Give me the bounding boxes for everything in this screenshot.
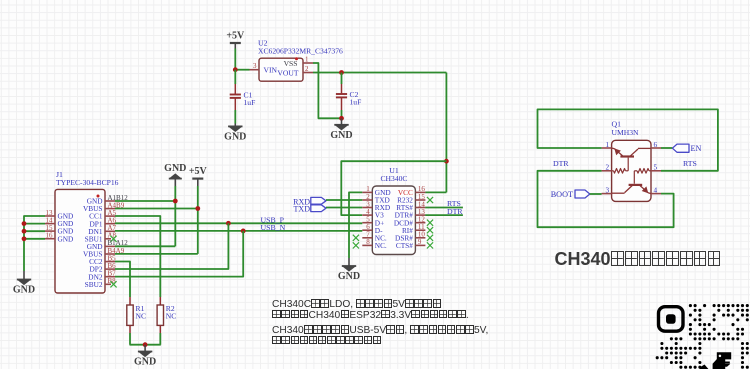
U1 pin 2 TXD (362, 193, 390, 205)
svg-text:TYPEC-304-BCP16: TYPEC-304-BCP16 (56, 178, 119, 187)
U2 pin 1 VSS stub (303, 55, 313, 63)
U1 pin 13 DTR# (395, 208, 426, 220)
wire DTR loop (pin2-pin4) (538, 171, 674, 227)
U1 pin 8 NC. (353, 238, 387, 250)
svg-text:CTS#: CTS# (396, 241, 413, 250)
Q1 pin 1 (602, 141, 612, 149)
net label RTS at U1 (425, 199, 463, 208)
U1 pin 3 RXD (362, 200, 390, 212)
resistor R1 NC (127, 297, 146, 345)
wire +5V to B4A9 (115, 253, 198, 255)
U1 pin 1 GND (362, 185, 390, 197)
QR code (653, 302, 750, 369)
svg-text:RTS: RTS (683, 159, 697, 168)
J1 pin A7 DN1 (88, 224, 116, 236)
svg-text:UMH3N: UMH3N (612, 128, 640, 137)
note text block 2 (272, 325, 488, 346)
svg-text:BOOT: BOOT (551, 190, 573, 199)
port RXD (293, 197, 326, 206)
J1 pin B6 DP2 (90, 262, 117, 274)
U1 pin 5 D+ (362, 216, 384, 228)
wire USB_P (115, 222, 362, 224)
svg-text:GND: GND (164, 163, 186, 174)
wire BOOT to pin 3 (590, 193, 602, 195)
Q1 transistor A (top) (612, 148, 651, 157)
U1 pin 9 CTS# (396, 238, 433, 250)
U1 pin 12 DCD# (394, 216, 433, 228)
svg-text:GND: GND (224, 132, 246, 143)
Q1 base resistor B (634, 169, 651, 184)
svg-text:6: 6 (654, 141, 658, 149)
Q1 pin 6 (651, 141, 661, 149)
wire CC2 to R1 (115, 262, 130, 298)
wire 3V3 to V3 pin (341, 161, 446, 215)
wire GND flag to B1A12 (115, 245, 175, 247)
svg-text:GND: GND (13, 285, 35, 296)
U1 pin 14 RTS# (396, 200, 425, 212)
wire DP2 riser (115, 223, 228, 269)
transistor array Q1 UMH3N body (612, 120, 652, 202)
svg-text:16: 16 (46, 232, 54, 240)
svg-text:DTR: DTR (447, 207, 463, 216)
U1 pin 7 NC. (353, 231, 387, 243)
svg-text:NC.: NC. (375, 241, 387, 250)
J1 pin A4B9 VBUS (83, 201, 125, 213)
svg-text:8: 8 (366, 238, 370, 246)
power +5V (LDO input) (226, 31, 245, 70)
junction node USB_P (226, 221, 231, 226)
svg-text:4: 4 (654, 186, 658, 194)
wire U1 GND pin to ground (349, 192, 362, 258)
Q1 pin 2 (602, 164, 612, 172)
schematic title CH340 auto flow-control download circuit (555, 249, 721, 270)
capacitor C2 1uF (336, 73, 361, 119)
svg-text:VIN: VIN (264, 66, 278, 75)
note text block 1 (272, 299, 469, 320)
svg-text:1: 1 (305, 55, 309, 63)
svg-text:VSS: VSS (284, 59, 298, 68)
wire DN2 riser (115, 231, 243, 277)
svg-text:+5V: +5V (189, 166, 208, 177)
power GND flag above J1 (164, 163, 186, 246)
J1 pin B5 CC2 (89, 254, 116, 266)
resistor R2 NC (157, 297, 176, 345)
J1 pin A5 CC1 (89, 209, 116, 221)
QR modules (656, 304, 749, 369)
junction node 3V3 branch (444, 159, 449, 164)
junction nodes J1 shield (22, 221, 27, 241)
net label USB_P (261, 215, 285, 224)
U1 pin 11 RI# (402, 223, 433, 235)
junction node +5V/C1 (233, 67, 238, 72)
svg-text:3: 3 (253, 62, 257, 70)
ground below U1 (338, 258, 360, 282)
ground below C2 (330, 118, 352, 141)
svg-text:GND: GND (338, 271, 360, 282)
J1 pin A1B12 GND (87, 194, 129, 206)
connector J1 TYPEC-304-BCP16 body (55, 170, 119, 293)
power +5V above J1 (189, 166, 208, 254)
ground below R1 R2 (134, 345, 156, 368)
port TXD (294, 205, 326, 214)
Q1 transistor B (bottom) (612, 185, 651, 194)
svg-text:2: 2 (305, 65, 309, 73)
svg-text:GND: GND (134, 357, 156, 368)
svg-text:VOUT: VOUT (277, 69, 298, 78)
Q1 pin 4 (651, 186, 661, 194)
svg-text:TXD: TXD (294, 205, 311, 214)
Q1 pin 3 (602, 186, 612, 194)
wire USB_N (115, 230, 362, 232)
svg-text:USB_N: USB_N (261, 223, 286, 232)
net label USB_N (261, 223, 286, 232)
port EN (672, 144, 701, 153)
wire CC1 to R2 (115, 216, 160, 297)
svg-text:1uF: 1uF (244, 98, 256, 107)
J1 pin 15 GND (45, 224, 73, 236)
junction node VOUT/C2 (339, 70, 344, 75)
J1 pin A6 DP1 (90, 217, 117, 229)
U2 pin 2 VOUT stub (303, 65, 313, 73)
svg-text:1: 1 (606, 141, 610, 149)
wire RTS loop (pin1-pin5) (538, 109, 718, 170)
ground left of J1 (13, 271, 35, 296)
wire 3V3 vertical to U1 (445, 73, 447, 193)
wire TXD port to U1 RXD (326, 207, 362, 209)
svg-text:1uF: 1uF (350, 97, 362, 106)
wire J1 shield to ground (24, 216, 45, 271)
wire EN (661, 147, 672, 149)
wire VSS to ground rail (313, 63, 342, 118)
regulator U2 XC6206P332MR (258, 39, 343, 82)
wire +5V to A4B9 (115, 208, 198, 210)
wire GND flag to A1B12 (115, 200, 175, 202)
junction node C2/GND (339, 116, 344, 121)
wire +5V to U2 VIN (235, 69, 249, 71)
wire RXD port to U1 TXD (326, 199, 362, 201)
J1 pin B7 DN2 (88, 270, 116, 282)
svg-text:5: 5 (654, 164, 658, 172)
U1 pin 10 DSR# (395, 231, 433, 243)
svg-text:GND: GND (330, 130, 352, 141)
svg-text:SBU2: SBU2 (85, 280, 103, 289)
port BOOT (551, 190, 590, 199)
svg-text:DTR: DTR (553, 159, 569, 168)
junction node USB_N (241, 229, 246, 234)
svg-text:NC: NC (136, 312, 147, 321)
J1 pin 14 GND (45, 216, 73, 228)
J1 pin B1A12 GND (87, 239, 129, 251)
junction node GND/A1B12 (173, 199, 178, 204)
ground below C1 (224, 124, 246, 143)
wire R1-R2 ground link (130, 344, 161, 346)
svg-text:3: 3 (606, 186, 610, 194)
Q1 base resistor A (612, 158, 629, 174)
junction node +5V/A4B9 (195, 206, 200, 211)
svg-text:+5V: +5V (226, 31, 245, 42)
capacitor C1 1uF (230, 70, 256, 124)
J1 pin B4A9 VBUS (83, 247, 125, 259)
U1 pin 16 VCC (398, 185, 426, 197)
svg-text:NC: NC (166, 312, 177, 321)
junction node R ground (143, 342, 148, 347)
J1 pin A8 SBU1 (85, 232, 117, 244)
J1 pin B8 SBU2 (85, 277, 117, 289)
wire VOUT 3V3 rail (313, 72, 446, 74)
U2 pin 3 VIN stub (250, 62, 260, 70)
IC U1 CH340C body (372, 166, 415, 255)
U1 pin 15 R232 (397, 193, 433, 205)
Q1 pin 5 (651, 164, 661, 172)
U1 pin 6 D- (362, 223, 383, 235)
J1 pin 16 GND (45, 232, 73, 244)
QR finder pattern (659, 307, 684, 332)
svg-text:9: 9 (418, 238, 422, 246)
J1 pin 13 GND (45, 209, 73, 221)
svg-text:GND: GND (58, 234, 74, 243)
svg-text:XC6206P332MR_C347376: XC6206P332MR_C347376 (258, 47, 343, 56)
wire 3V3 to VCC pin (425, 191, 446, 193)
svg-text:EN: EN (691, 144, 702, 153)
svg-text:2: 2 (606, 164, 610, 172)
net label RTS at Q1 (683, 159, 697, 168)
dino logo (708, 352, 732, 369)
svg-text:CH340C: CH340C (380, 174, 407, 183)
net label DTR at U1 (425, 207, 463, 216)
U1 pin 4 V3 (362, 208, 384, 220)
net label DTR at Q1 (553, 159, 569, 168)
